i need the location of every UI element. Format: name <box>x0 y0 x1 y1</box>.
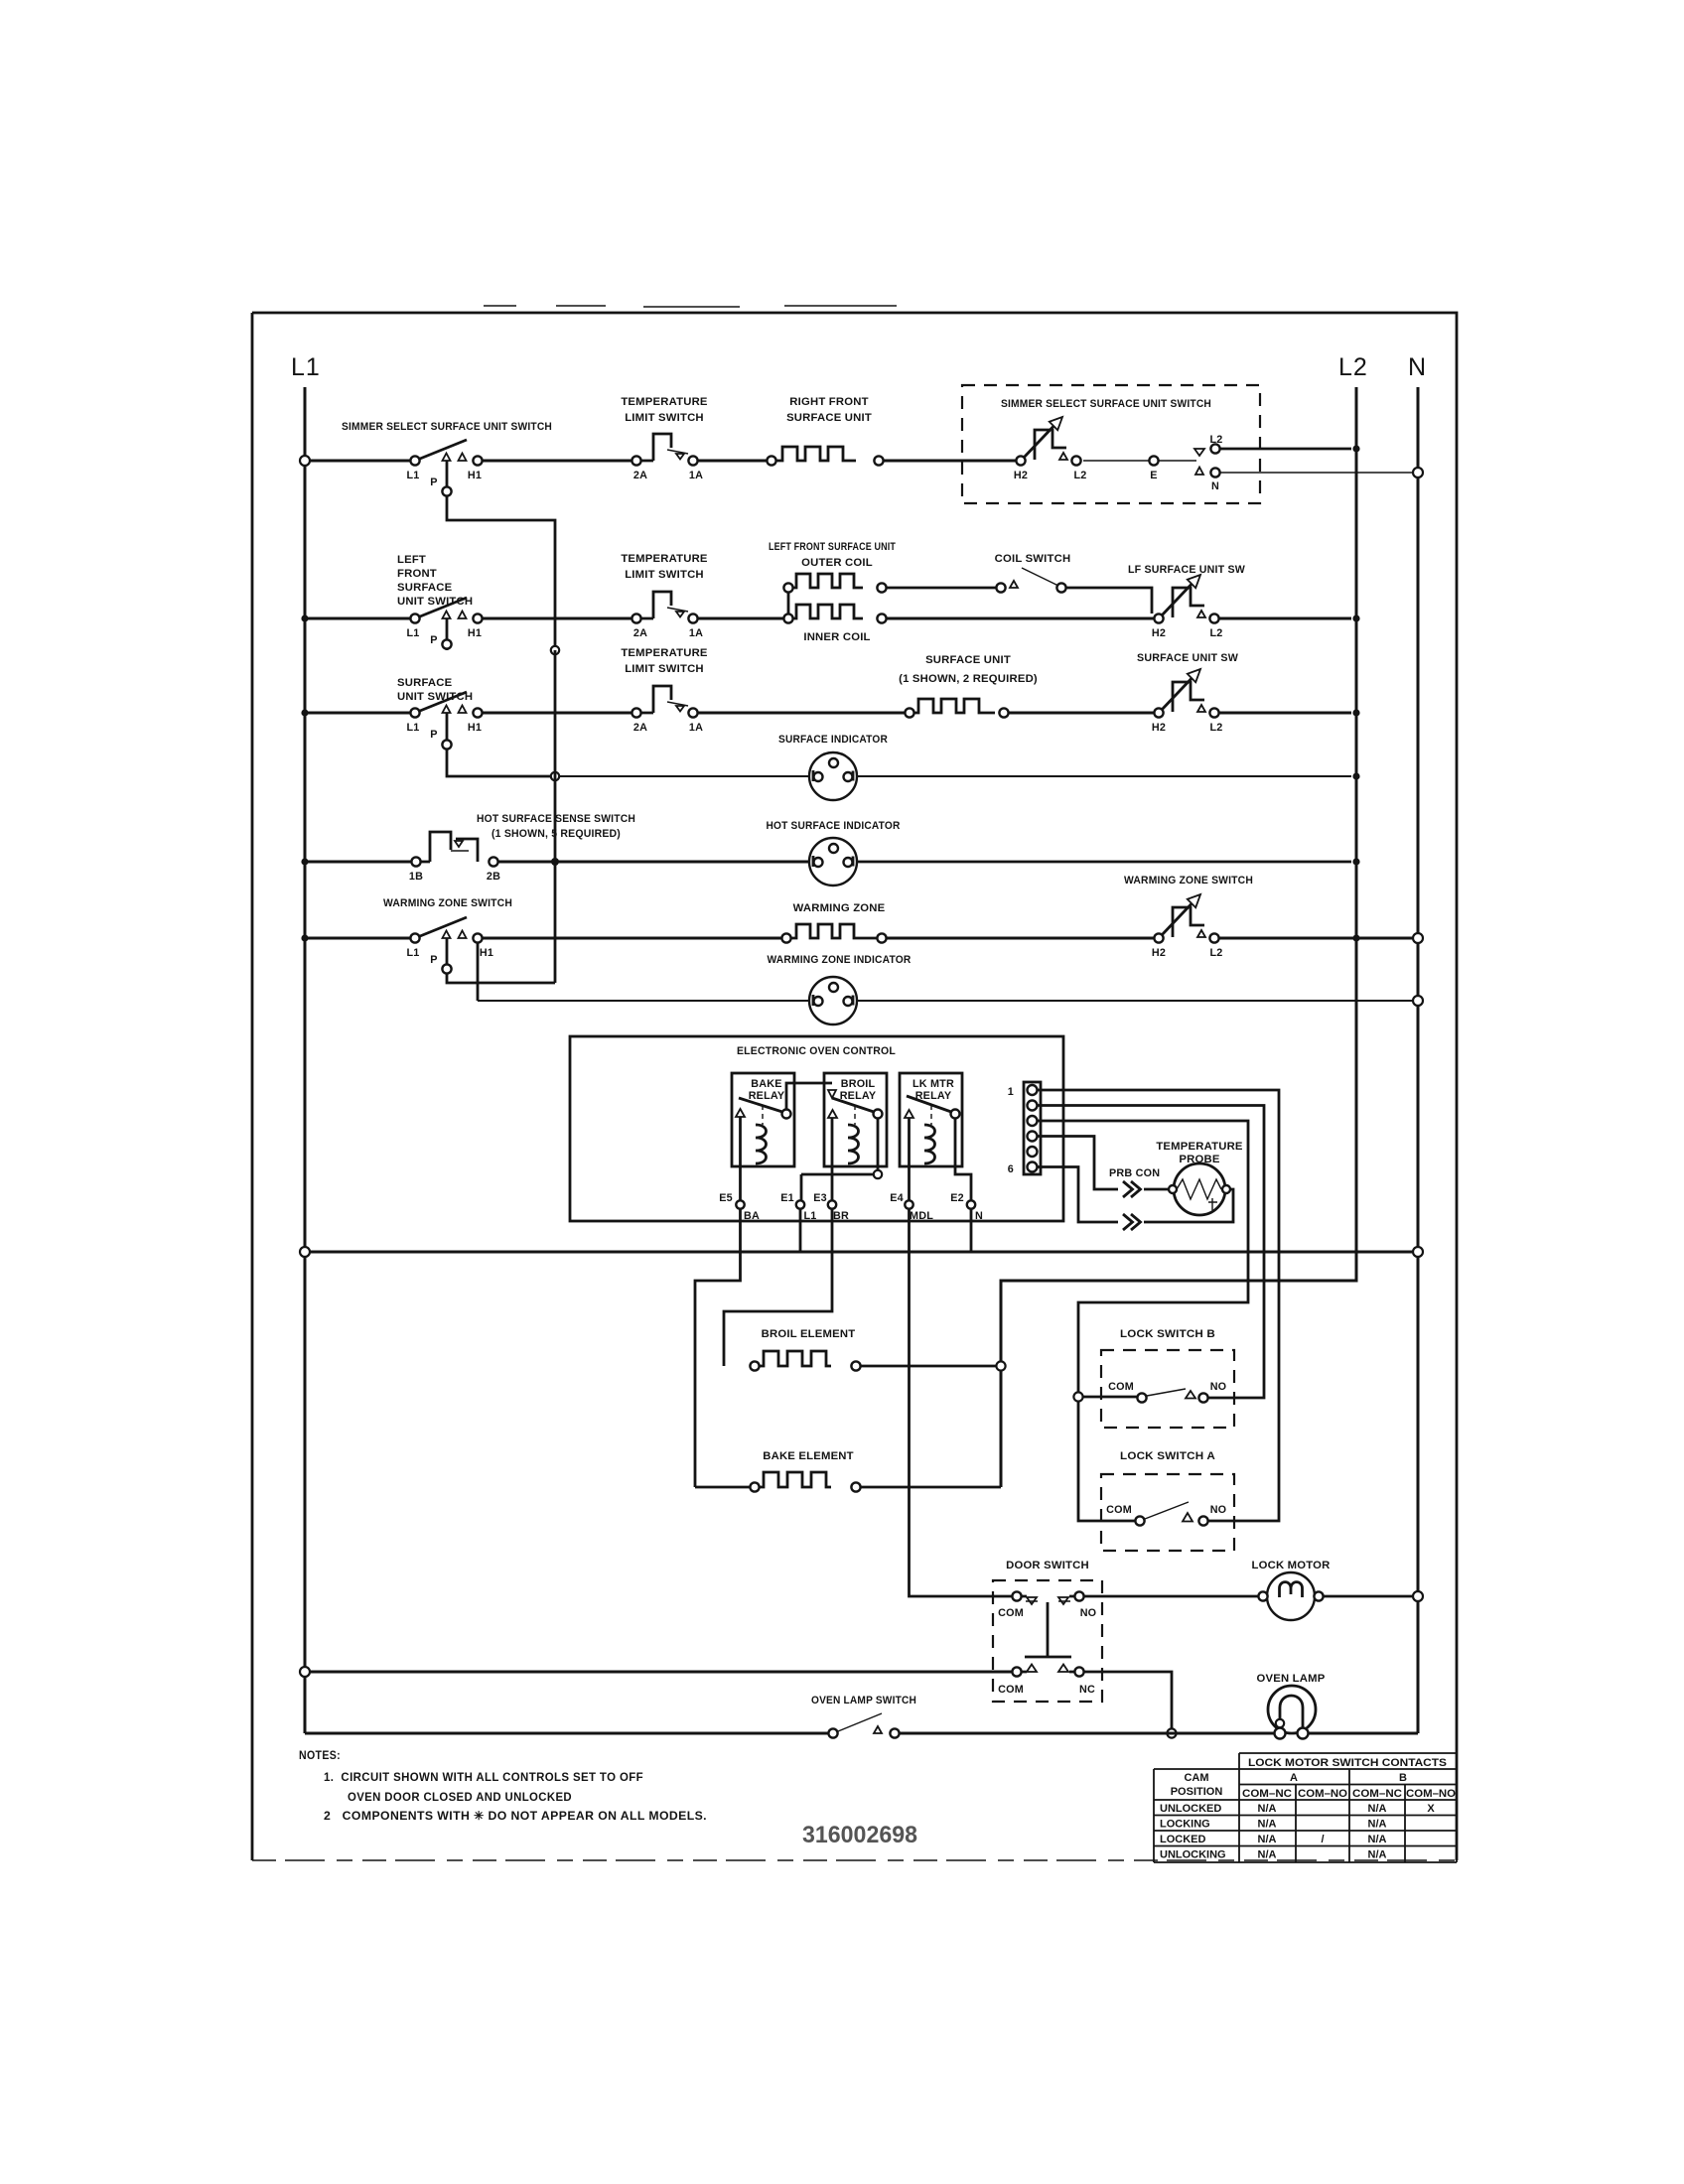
svg-text:LIMIT SWITCH: LIMIT SWITCH <box>625 412 704 424</box>
svg-text:H2: H2 <box>1014 470 1028 481</box>
svg-text:SIMMER SELECT SURFACE UNIT SWI: SIMMER SELECT SURFACE UNIT SWITCH <box>1001 398 1211 410</box>
svg-text:L2: L2 <box>1338 353 1368 381</box>
svg-text:NO: NO <box>1080 1607 1097 1619</box>
svg-text:SURFACE UNIT SW: SURFACE UNIT SW <box>1137 652 1238 664</box>
svg-text:BAKE: BAKE <box>751 1078 781 1090</box>
svg-text:COM–NO: COM–NO <box>1298 1788 1347 1800</box>
svg-text:LOCK SWITCH A: LOCK SWITCH A <box>1120 1450 1215 1462</box>
svg-text:UNIT SWITCH: UNIT SWITCH <box>397 596 473 608</box>
svg-text:LOCKED: LOCKED <box>1160 1834 1206 1845</box>
svg-text:1A: 1A <box>689 627 703 639</box>
svg-text:LEFT FRONT SURFACE UNIT: LEFT FRONT SURFACE UNIT <box>769 541 896 553</box>
svg-text:P: P <box>430 634 437 646</box>
svg-text:6: 6 <box>1008 1163 1014 1175</box>
svg-text:H2: H2 <box>1152 627 1166 639</box>
svg-text:SURFACE: SURFACE <box>397 677 453 689</box>
svg-text:COM: COM <box>998 1607 1024 1619</box>
svg-text:X: X <box>1427 1803 1435 1815</box>
svg-text:POSITION: POSITION <box>1171 1786 1223 1798</box>
svg-text:WARMING ZONE SWITCH: WARMING ZONE SWITCH <box>1124 875 1253 887</box>
svg-text:L2: L2 <box>1074 470 1087 481</box>
svg-text:E2: E2 <box>950 1192 964 1204</box>
svg-text:WARMING ZONE INDICATOR: WARMING ZONE INDICATOR <box>768 954 912 966</box>
svg-text:WARMING ZONE SWITCH: WARMING ZONE SWITCH <box>383 897 512 909</box>
svg-text:COM: COM <box>998 1684 1024 1696</box>
svg-text:1: 1 <box>1008 1086 1014 1098</box>
svg-text:UNLOCKING: UNLOCKING <box>1160 1849 1226 1861</box>
svg-text:/: / <box>1321 1834 1324 1845</box>
svg-text:H1: H1 <box>468 627 482 639</box>
svg-text:LOCKING: LOCKING <box>1160 1819 1210 1831</box>
svg-text:TEMPERATURE: TEMPERATURE <box>621 647 708 659</box>
svg-text:N/A: N/A <box>1368 1803 1387 1815</box>
svg-text:OVEN DOOR CLOSED AND UNLOCKED: OVEN DOOR CLOSED AND UNLOCKED <box>348 1790 572 1804</box>
svg-text:H2: H2 <box>1152 722 1166 734</box>
svg-text:UNLOCKED: UNLOCKED <box>1160 1803 1221 1815</box>
svg-text:N: N <box>975 1210 983 1222</box>
svg-text:COM: COM <box>1108 1381 1134 1393</box>
svg-text:N/A: N/A <box>1258 1803 1277 1815</box>
svg-text:OVEN LAMP: OVEN LAMP <box>1257 1673 1326 1685</box>
svg-text:H1: H1 <box>468 722 482 734</box>
svg-text:TEMPERATURE: TEMPERATURE <box>621 553 708 565</box>
svg-text:BAKE ELEMENT: BAKE ELEMENT <box>763 1450 854 1462</box>
svg-text:SURFACE UNIT: SURFACE UNIT <box>925 654 1011 666</box>
svg-text:1B: 1B <box>409 871 423 883</box>
svg-text:HOT SURFACE SENSE SWITCH: HOT SURFACE SENSE SWITCH <box>477 813 635 825</box>
svg-text:H2: H2 <box>1152 947 1166 959</box>
svg-text:BA: BA <box>744 1210 760 1222</box>
svg-text:CAM: CAM <box>1184 1772 1208 1784</box>
svg-text:ELECTRONIC OVEN CONTROL: ELECTRONIC OVEN CONTROL <box>737 1045 896 1057</box>
svg-text:UNIT SWITCH: UNIT SWITCH <box>397 691 473 703</box>
svg-text:INNER COIL: INNER COIL <box>803 631 870 643</box>
svg-text:N/A: N/A <box>1368 1834 1387 1845</box>
svg-text:E3: E3 <box>813 1192 827 1204</box>
svg-text:2A: 2A <box>633 627 647 639</box>
svg-text:L2: L2 <box>1210 627 1223 639</box>
svg-text:DOOR SWITCH: DOOR SWITCH <box>1006 1560 1089 1571</box>
svg-text:COM–NC: COM–NC <box>1352 1788 1402 1800</box>
svg-text:SURFACE INDICATOR: SURFACE INDICATOR <box>778 734 888 746</box>
svg-text:SURFACE: SURFACE <box>397 582 453 594</box>
svg-text:COIL SWITCH: COIL SWITCH <box>995 553 1071 565</box>
svg-text:PRB CON: PRB CON <box>1109 1167 1160 1179</box>
svg-text:RELAY: RELAY <box>840 1090 877 1102</box>
svg-text:LOCK MOTOR: LOCK MOTOR <box>1252 1560 1331 1571</box>
svg-text:2 COMPONENTS WITH ✳ DO NOT A: 2 COMPONENTS WITH ✳ DO NOT APPEAR ON ALL… <box>324 1809 707 1823</box>
svg-text:L2: L2 <box>1210 434 1223 446</box>
svg-text:1. CIRCUIT SHOWN WITH ALL CON: 1. CIRCUIT SHOWN WITH ALL CONTROLS SET T… <box>324 1770 643 1784</box>
svg-text:1A: 1A <box>689 722 703 734</box>
svg-text:1A: 1A <box>689 470 703 481</box>
svg-text:E5: E5 <box>719 1192 733 1204</box>
svg-text:B: B <box>1399 1772 1407 1784</box>
svg-text:BR: BR <box>833 1210 849 1222</box>
svg-text:LF SURFACE UNIT SW: LF SURFACE UNIT SW <box>1128 564 1245 576</box>
svg-text:E4: E4 <box>890 1192 904 1204</box>
svg-text:TEMPERATURE: TEMPERATURE <box>1156 1141 1243 1153</box>
svg-text:LOCK SWITCH B: LOCK SWITCH B <box>1120 1328 1215 1340</box>
svg-text:(1 SHOWN, 2 REQUIRED): (1 SHOWN, 2 REQUIRED) <box>899 673 1038 685</box>
svg-text:P: P <box>430 954 437 966</box>
svg-text:LK MTR: LK MTR <box>912 1078 954 1090</box>
svg-text:L1: L1 <box>407 947 420 959</box>
svg-text:COM: COM <box>1106 1504 1132 1516</box>
svg-text:LEFT: LEFT <box>397 554 426 566</box>
svg-text:COM–NC: COM–NC <box>1242 1788 1292 1800</box>
svg-text:SIMMER SELECT SURFACE UNIT SWI: SIMMER SELECT SURFACE UNIT SWITCH <box>342 421 552 433</box>
svg-text:WARMING ZONE: WARMING ZONE <box>793 902 886 914</box>
svg-text:N/A: N/A <box>1258 1834 1277 1845</box>
svg-text:NO: NO <box>1210 1381 1227 1393</box>
svg-text:NC: NC <box>1079 1684 1095 1696</box>
svg-text:SURFACE UNIT: SURFACE UNIT <box>786 412 872 424</box>
svg-text:NOTES:: NOTES: <box>299 1748 341 1762</box>
svg-text:P: P <box>430 477 437 488</box>
svg-text:L2: L2 <box>1210 722 1223 734</box>
svg-text:2A: 2A <box>633 722 647 734</box>
svg-text:OVEN LAMP SWITCH: OVEN LAMP SWITCH <box>811 1695 916 1706</box>
svg-text:A: A <box>1290 1772 1298 1784</box>
svg-text:H1: H1 <box>468 470 482 481</box>
svg-text:L1: L1 <box>407 722 420 734</box>
svg-text:PROBE: PROBE <box>1179 1154 1219 1165</box>
svg-text:LOCK MOTOR SWITCH CONTACTS: LOCK MOTOR SWITCH CONTACTS <box>1248 1757 1447 1769</box>
svg-text:TEMPERATURE: TEMPERATURE <box>621 396 708 408</box>
svg-text:2B: 2B <box>487 871 500 883</box>
svg-text:LIMIT SWITCH: LIMIT SWITCH <box>625 663 704 675</box>
svg-text:(1 SHOWN, 5 REQUIRED): (1 SHOWN, 5 REQUIRED) <box>491 828 621 840</box>
svg-text:RIGHT FRONT: RIGHT FRONT <box>789 396 868 408</box>
svg-text:L1: L1 <box>407 470 420 481</box>
svg-text:LIMIT SWITCH: LIMIT SWITCH <box>625 569 704 581</box>
svg-text:N/A: N/A <box>1368 1819 1387 1831</box>
svg-text:RELAY: RELAY <box>749 1090 785 1102</box>
svg-text:316002698: 316002698 <box>802 1822 917 1848</box>
svg-text:P: P <box>430 729 437 741</box>
svg-text:OUTER COIL: OUTER COIL <box>801 557 873 569</box>
svg-text:BROIL ELEMENT: BROIL ELEMENT <box>762 1328 856 1340</box>
svg-text:FRONT: FRONT <box>397 568 437 580</box>
svg-text:COM–NO: COM–NO <box>1406 1788 1456 1800</box>
svg-text:L1: L1 <box>291 353 321 381</box>
svg-text:N: N <box>1408 353 1427 381</box>
svg-text:L2: L2 <box>1210 947 1223 959</box>
svg-text:N/A: N/A <box>1368 1849 1387 1861</box>
svg-text:N: N <box>1211 480 1219 492</box>
svg-text:MDL: MDL <box>910 1210 933 1222</box>
svg-text:HOT SURFACE INDICATOR: HOT SURFACE INDICATOR <box>767 820 901 832</box>
svg-text:E1: E1 <box>780 1192 794 1204</box>
svg-text:N/A: N/A <box>1258 1819 1277 1831</box>
svg-text:BROIL: BROIL <box>841 1078 876 1090</box>
svg-text:L1: L1 <box>804 1210 817 1222</box>
svg-text:N/A: N/A <box>1258 1849 1277 1861</box>
svg-text:H1: H1 <box>480 947 493 959</box>
svg-text:L1: L1 <box>407 627 420 639</box>
svg-text:NO: NO <box>1210 1504 1227 1516</box>
svg-text:E: E <box>1150 470 1157 481</box>
svg-text:2A: 2A <box>633 470 647 481</box>
